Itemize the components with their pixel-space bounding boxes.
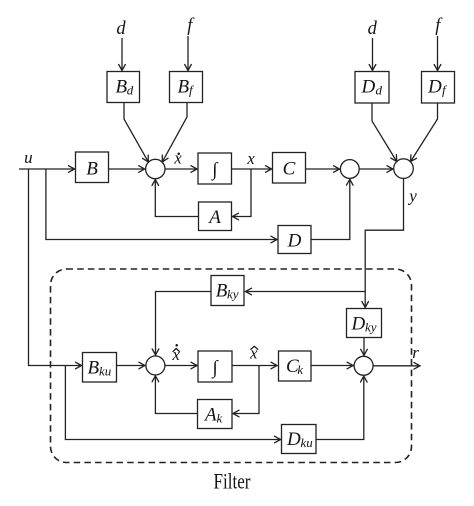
svg-text:A: A <box>207 207 221 228</box>
svg-text:f: f <box>187 16 195 36</box>
svg-text:f: f <box>442 83 448 98</box>
svg-text:ky: ky <box>227 287 239 302</box>
svg-text:k: k <box>297 362 303 377</box>
summing junction S2 <box>340 160 359 179</box>
node xhat label <box>249 344 258 363</box>
block Bf <box>170 72 203 103</box>
wire D to S2 <box>311 179 350 239</box>
wire S4 to integrator filter <box>165 365 197 367</box>
svg-text:B: B <box>88 358 100 379</box>
wire f to Df <box>437 36 439 71</box>
node xdot label <box>173 149 182 168</box>
svg-text:D: D <box>287 231 302 252</box>
svg-text:∫: ∫ <box>211 159 219 181</box>
svg-text:D: D <box>361 77 376 98</box>
block Dky <box>347 309 382 338</box>
svg-text:r: r <box>412 343 419 362</box>
block C <box>273 153 306 184</box>
svg-text:D: D <box>351 314 366 335</box>
wire C to S2 <box>306 168 340 170</box>
svg-text:A: A <box>203 405 217 426</box>
wire Dky to S5 <box>363 338 365 356</box>
svg-text:x: x <box>173 149 182 168</box>
wire Bd to S1 <box>124 103 148 162</box>
wire u branch to Bku <box>29 169 82 366</box>
summing junction S5 <box>354 356 373 375</box>
summing junction S1 <box>146 159 165 178</box>
block Dku <box>282 425 317 454</box>
svg-text:B: B <box>178 76 190 97</box>
wire x feedback to A <box>233 169 252 217</box>
wire Dd to S3 <box>372 103 397 162</box>
summing junction S3 <box>394 159 414 179</box>
svg-text:ku: ku <box>301 435 314 450</box>
block B <box>76 152 109 183</box>
wire f to Bf <box>187 36 189 71</box>
wire Df to S3 <box>411 103 438 162</box>
svg-text:D: D <box>427 77 442 98</box>
block A <box>199 202 232 231</box>
wire Dku to S5 <box>316 376 364 439</box>
wire u input <box>19 168 75 170</box>
block integrator plant <box>198 153 232 184</box>
block Ck <box>279 351 312 381</box>
wire B to S1 <box>109 168 145 170</box>
block Dd <box>355 72 389 104</box>
wire Bku to S4 <box>117 365 145 367</box>
wire A to S1 <box>155 180 198 217</box>
svg-text:d: d <box>127 82 134 97</box>
block Df <box>422 72 455 104</box>
wire S1 to integrator <box>165 168 197 170</box>
wire u branch to Dku <box>65 366 280 440</box>
block Bd <box>107 72 140 103</box>
svg-text:x: x <box>246 149 255 168</box>
wire Bf to S1 <box>162 103 187 162</box>
svg-text:y: y <box>407 187 417 206</box>
svg-text:D: D <box>286 429 301 450</box>
block D <box>278 226 311 254</box>
svg-text:f: f <box>435 16 443 36</box>
wire integrator to Ck <box>232 365 277 367</box>
svg-text:Filter: Filter <box>214 469 252 494</box>
wire integrator to C <box>232 168 272 170</box>
svg-text:B: B <box>216 281 228 302</box>
summing junction S4 <box>146 356 165 375</box>
wire Ck to S5 <box>311 365 353 367</box>
wire d to Bd <box>121 38 123 71</box>
svg-text:∫: ∫ <box>211 357 219 379</box>
node xhatdot label <box>172 344 181 364</box>
svg-text:d: d <box>376 83 383 98</box>
svg-text:ku: ku <box>99 364 112 379</box>
wire y to Dky <box>365 178 403 307</box>
svg-text:u: u <box>24 148 33 167</box>
block Bky <box>211 276 244 306</box>
block Bku <box>83 353 117 383</box>
svg-text:B: B <box>116 76 128 97</box>
wire Ak to S4 <box>155 376 197 414</box>
svg-text:d: d <box>116 19 126 39</box>
wire xhat feedback to Ak <box>233 366 259 414</box>
filter dashed border <box>51 269 412 463</box>
svg-text:d: d <box>368 19 378 39</box>
wire y branch to Bky <box>246 291 366 293</box>
wire u branch to D <box>46 169 277 240</box>
wire Bky to S4 <box>156 292 212 356</box>
wire d to Dd <box>372 38 374 71</box>
svg-text:f: f <box>189 82 195 97</box>
svg-text:k: k <box>217 411 223 426</box>
wire S5 output r <box>373 365 420 367</box>
wire S2 to S3 <box>359 168 393 170</box>
svg-text:B: B <box>86 159 98 180</box>
block integrator filter <box>198 351 232 382</box>
svg-text:C: C <box>283 159 296 180</box>
svg-text:ky: ky <box>365 320 377 335</box>
block Ak <box>198 400 233 429</box>
